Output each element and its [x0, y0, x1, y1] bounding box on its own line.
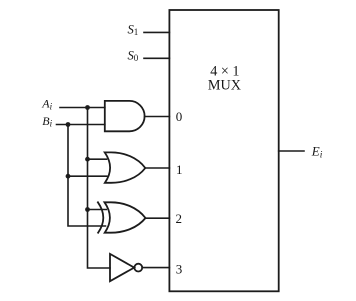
wire OR gate top input — [88, 158, 107, 160]
junction dot on Bi wire — [66, 122, 71, 127]
OR gate — [105, 152, 146, 182]
junction dot XOR top input tap — [85, 207, 90, 212]
wire AND output to port 0 — [145, 116, 170, 118]
XOR gate leading input arc — [98, 202, 103, 232]
wire Ai vertical bus — [88, 108, 111, 269]
wire OR gate bottom input — [68, 175, 107, 177]
wire NOT output to port 3 — [142, 267, 169, 269]
svg-text:S1: S1 — [128, 22, 139, 37]
wire XOR output to port 2 — [146, 217, 170, 219]
junction dot OR top input tap — [85, 157, 90, 162]
svg-text:Bi: Bi — [42, 114, 52, 129]
MUX box (4x1 multiplexer body) — [169, 10, 278, 291]
svg-text:S0: S0 — [128, 48, 139, 63]
wire Ai input — [60, 107, 105, 109]
wire XOR gate top input — [88, 209, 107, 211]
junction dot OR bottom input tap — [66, 174, 71, 179]
AND gate — [105, 101, 145, 131]
wire OR output to port 1 — [145, 167, 169, 169]
svg-text:2: 2 — [176, 211, 183, 226]
svg-text:Ei: Ei — [311, 144, 323, 161]
svg-text:MUX: MUX — [208, 77, 241, 93]
NOT gate bubble — [134, 264, 142, 272]
wire Bi input — [57, 124, 105, 126]
junction dot on Ai wire — [85, 105, 90, 110]
XOR gate body — [105, 202, 146, 232]
wire S1 input — [144, 31, 169, 33]
svg-text:Ai: Ai — [41, 97, 52, 112]
svg-text:0: 0 — [176, 109, 183, 124]
wire Bi vertical bus — [68, 125, 106, 227]
svg-text:1: 1 — [176, 162, 183, 177]
NOT gate (inverter triangle) — [110, 254, 134, 281]
svg-text:3: 3 — [176, 262, 183, 277]
wire S0 input — [144, 57, 169, 59]
wire Ei output — [279, 150, 304, 152]
